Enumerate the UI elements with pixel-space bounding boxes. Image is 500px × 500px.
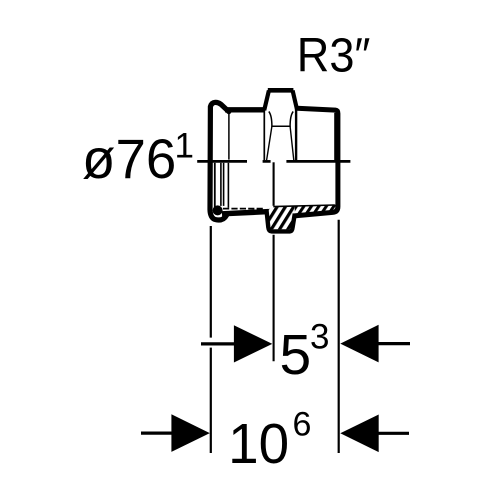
hex nut top face	[268, 88, 294, 93]
arrow 5-dim right	[340, 325, 378, 363]
tail 10-dim left	[141, 432, 173, 435]
arrow 5-dim left	[234, 325, 272, 362]
dimension line ø76 segment left	[197, 160, 247, 163]
dimension line ø76 segment right	[286, 160, 350, 163]
fitting: left press socket outer wall with bead hump	[210, 102, 229, 220]
arrow 10-dim left	[171, 414, 209, 452]
O-ring seal cross-section	[213, 205, 223, 215]
thread end inner line	[334, 113, 336, 160]
body bottom edge (left of hex section)	[222, 212, 269, 214]
hex nut section hatch fill	[255, 195, 350, 240]
socket end line (section)	[227, 163, 229, 208]
label R3" (thread size)	[297, 28, 371, 82]
thread body outline: top edge, right edge, bottom band edge	[294, 108, 338, 216]
label ø76 (diameter)	[82, 127, 176, 190]
body top edge (left of hex)	[225, 107, 265, 112]
svg-text:5: 5	[280, 323, 312, 387]
bead pocket wall line 1 (section)	[220, 163, 222, 206]
extension line left lower segment	[210, 348, 212, 453]
socket inner edge line (top)	[228, 113, 230, 160]
svg-text:10: 10	[228, 411, 289, 475]
thread minor-diameter line	[273, 205, 335, 207]
dimension text 10	[228, 411, 289, 475]
svg-text:3: 3	[310, 318, 329, 357]
thread band hatch fill	[265, 195, 350, 225]
hex nut section outline (trapezoid)	[266, 209, 294, 231]
tail 5-dim left	[201, 342, 235, 345]
tail 10-dim right	[378, 432, 409, 435]
hex facet curve	[269, 112, 293, 127]
hex chamfer left	[264, 91, 269, 111]
svg-text:1: 1	[175, 127, 194, 166]
hex chamfer right	[293, 91, 298, 111]
hex side right	[295, 109, 297, 161]
extension line middle lower segment	[273, 235, 275, 361]
bead pocket wall line 2 (section)	[223, 163, 225, 206]
extension line middle upper segment	[273, 162, 275, 206]
socket wall inner surface line (section)	[214, 163, 216, 210]
tail 5-dim right	[378, 342, 411, 345]
svg-text:6: 6	[293, 406, 312, 444]
extension line right (x=338.7)	[338, 220, 340, 453]
hex facet slant left	[267, 126, 272, 160]
bore hidden line (dashed, left)	[223, 208, 265, 210]
arrow 10-dim right	[340, 415, 378, 453]
hex facet slant right	[290, 126, 294, 160]
svg-text:ø76: ø76	[82, 127, 176, 190]
dimension line ø76 segment middle	[263, 160, 271, 163]
svg-text:R3″: R3″	[297, 28, 371, 82]
hex side left	[263, 109, 265, 161]
extension line left upper segment	[210, 226, 212, 338]
